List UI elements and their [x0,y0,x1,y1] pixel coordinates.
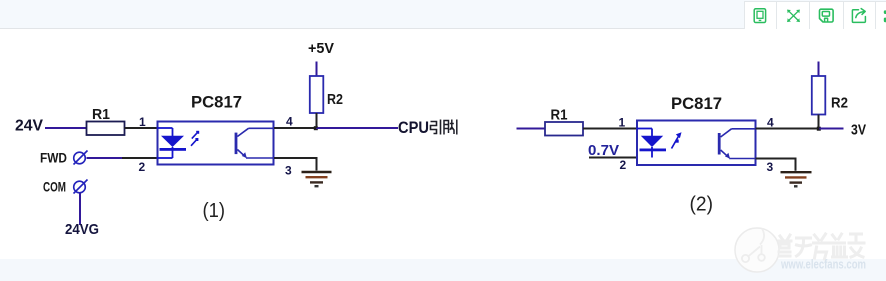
toolbar cell dividers [744,1,886,29]
svg-text:PC817: PC817 [671,94,722,113]
wire +5V to R2 [316,62,318,77]
svg-text:+5V: +5V [308,40,334,57]
terminal FWD [74,151,88,165]
svg-text:1: 1 [619,116,626,130]
light arrows U1 [191,131,199,146]
light arrow U2 [672,132,682,148]
wire R1 to pin1 [125,127,158,129]
svg-text:R1: R1 [92,106,110,123]
svg-text:CPU: CPU [398,119,429,137]
svg-text:3V: 3V [851,122,866,139]
svg-text:(2): (2) [690,194,714,216]
svg-text:www.elecfans.com: www.elecfans.com [780,257,866,272]
icon: partial more-dots at right edge [884,10,886,22]
svg-text:3: 3 [285,164,292,178]
wire R2 to junction [316,113,318,128]
node junction R2/pin4 [314,126,318,130]
svg-text:R1: R1 [551,107,568,124]
svg-text:4: 4 [767,116,774,130]
terminal COM [74,180,88,194]
svg-text:R2: R2 [831,95,848,112]
wire junction to 3V [819,128,844,130]
resistor R2 (circuit 1) [310,76,324,113]
icon: fullscreen expand [787,10,799,22]
wire pin3 to ground (circuit 2) [756,159,796,171]
phototransistor Q2 inside U2 [718,129,755,159]
svg-text:FWD: FWD [40,149,67,165]
wire pin3 to ground [274,158,317,171]
icon: mobile preview [754,9,765,23]
wire R1 to pin1 (circuit 2) [583,128,637,130]
icon: share/export [852,9,865,23]
svg-text:(1): (1) [203,200,226,222]
resistor R1 [87,122,125,136]
icon: save floppy [820,9,834,22]
wire pin4 to junction [274,127,316,129]
watermark logo elecfans [680,221,886,281]
wire pin4 to junction (circuit 2) [756,128,820,130]
wire input (circuit 2) [517,128,545,130]
LED D1 inside U1 [157,128,186,158]
ground (circuit 1) [302,172,332,186]
wire COM to 24VG [79,193,81,225]
svg-text:2: 2 [139,160,146,174]
phototransistor Q1 inside U1 [235,128,274,158]
label glyph 脚 [444,120,457,135]
svg-text:R2: R2 [327,91,343,108]
svg-text:1: 1 [139,115,146,129]
wire 24V to R1 [45,127,86,129]
top toolbar background [0,0,886,29]
ground (circuit 2) [781,172,812,186]
LED D2 inside U2 [637,129,667,158]
svg-text:4: 4 [286,115,293,129]
op-to body U1 box [158,122,274,165]
svg-text:2: 2 [620,158,627,172]
wire stub above R2 (circuit 2) [818,62,820,77]
wire pin2 (circuit 2) [589,157,637,159]
svg-text:PC817: PC817 [191,93,242,112]
wire pin2 segment [122,157,157,159]
svg-text:COM: COM [43,178,66,194]
bottom band [0,259,886,281]
label glyph 引 [431,120,441,135]
op-to body U2 box [637,121,756,166]
resistor R1 (circuit 2) [545,122,583,136]
node junction R2/pin4 (circuit 2) [817,127,821,131]
wire junction to CPU [316,127,398,129]
wire R2 to junction (circuit 2) [818,115,820,129]
svg-text:24VG: 24VG [65,221,99,238]
svg-text:0.7V: 0.7V [588,142,619,159]
svg-text:3: 3 [767,160,774,174]
svg-text:24V: 24V [15,118,44,135]
resistor R2 (circuit 2) [812,76,826,115]
wire FWD to pin2 [87,157,123,159]
